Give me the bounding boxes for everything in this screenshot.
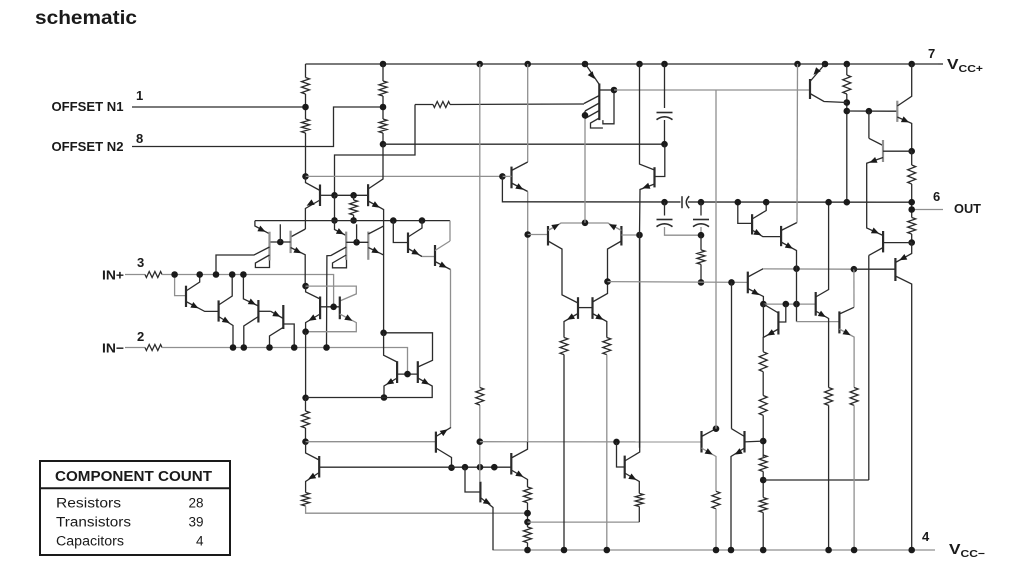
QP0 emitter arrow — [814, 67, 821, 75]
rail junction — [844, 61, 851, 68]
transistor QG bar — [747, 272, 749, 294]
wire R3 top — [382, 64, 384, 81]
QB emitter arrow — [222, 317, 230, 324]
resistor R20 — [759, 352, 767, 372]
transistor QMa bar — [407, 233, 409, 254]
QIa emitter — [752, 230, 781, 237]
svg-text:8: 8 — [136, 131, 143, 146]
node x527 b — [524, 519, 531, 526]
QMa collector — [408, 221, 422, 237]
QH2 emitter arrow — [735, 448, 743, 454]
offset n2 pin wire — [132, 107, 383, 147]
resistor R17 — [524, 487, 532, 503]
node y467 b — [462, 464, 469, 471]
R9 bottom — [911, 234, 913, 243]
node x763 b — [760, 477, 767, 484]
capA top wire — [664, 202, 666, 215]
resistor R11 — [302, 493, 310, 507]
QMC finger tie — [584, 111, 586, 119]
rail junction — [661, 61, 668, 68]
QE bias stub — [356, 224, 358, 242]
QN0 emitter arrow — [308, 473, 316, 479]
QMa base wire — [393, 221, 408, 243]
in+ wire — [162, 275, 334, 307]
VCC+ top rail — [306, 63, 939, 65]
QB collector — [219, 275, 233, 306]
node y282 left — [604, 278, 611, 285]
out pin wire — [912, 209, 943, 211]
QN3 emitter arrow — [628, 474, 636, 480]
quad base rail — [397, 373, 418, 375]
transistor QT bar — [510, 167, 512, 189]
resistor R15 — [476, 388, 484, 406]
QV collector — [816, 202, 829, 297]
QH1 emitter — [702, 448, 717, 491]
R13 down — [563, 355, 565, 550]
node in+ d — [240, 271, 247, 278]
resistor R6 — [350, 200, 358, 215]
node in- b — [241, 344, 248, 351]
QO0 collector — [869, 248, 883, 256]
svg-text:1: 1 — [136, 88, 143, 103]
QN0 base line — [319, 466, 511, 468]
transistor QH2 bar — [743, 431, 745, 453]
node y176 right — [499, 173, 506, 180]
resistor R5 — [433, 102, 450, 108]
QIb emitter — [781, 242, 796, 322]
R7 top stub — [846, 64, 848, 75]
QMb collector wrap — [449, 221, 451, 241]
transistor Q2 bar — [367, 184, 369, 206]
svg-text:39: 39 — [188, 515, 203, 530]
wire to R5 — [415, 104, 433, 106]
transistor QEa bar — [345, 232, 347, 260]
svg-text:6: 6 — [933, 189, 940, 204]
svg-text:schematic: schematic — [35, 8, 137, 29]
QF2 base rail — [270, 241, 291, 243]
QA emitter arrow — [190, 302, 198, 308]
node cap c1 bottom — [661, 141, 668, 148]
QW collector wire — [763, 304, 778, 313]
x868 down — [868, 111, 870, 138]
x480 top — [479, 64, 481, 388]
line y282 — [608, 281, 748, 284]
resistor R1 — [302, 78, 310, 95]
QD emitter arrow — [272, 311, 280, 317]
node y442 b — [613, 439, 620, 446]
rail junction — [794, 61, 801, 68]
QX2 collector — [593, 282, 608, 302]
transistor QF bar — [653, 167, 655, 187]
QF2 emitter — [291, 248, 306, 287]
node x912 b — [908, 239, 915, 246]
QH1 collector — [702, 429, 717, 437]
resistor R25 — [712, 491, 720, 509]
node capB bottom — [698, 232, 705, 239]
transistor QN2 bar — [510, 453, 512, 475]
resistor R22 — [759, 455, 767, 472]
svg-text:4: 4 — [196, 534, 204, 549]
transistor QO1 bar — [894, 258, 896, 281]
svg-text:4: 4 — [922, 529, 930, 544]
resistor R23 — [825, 388, 833, 406]
transistor QC bar — [257, 300, 259, 323]
QF2 collector wire — [291, 229, 306, 237]
transistor QEb bar — [367, 232, 369, 260]
svg-text:OFFSET N1: OFFSET N1 — [52, 99, 124, 114]
resistor R10 — [302, 411, 310, 428]
line y304 — [763, 303, 815, 305]
QE finger 2 — [333, 255, 347, 268]
QN1 collector — [436, 448, 452, 468]
R6 stub bottom — [353, 215, 355, 220]
QQa emitter — [384, 378, 397, 398]
QEb emitter arrow — [371, 247, 379, 253]
resistor R21 — [759, 396, 767, 416]
QF collector wire — [640, 64, 655, 170]
node offset n2 — [380, 104, 387, 111]
Q2 emitter arrow — [372, 201, 380, 208]
VCC- bottom rail — [493, 549, 936, 551]
QL emitter arrow — [308, 314, 316, 321]
bias line y90 — [614, 89, 810, 91]
rail junction — [582, 61, 589, 68]
node x527 diff base — [524, 231, 531, 238]
R17 bottom — [527, 503, 529, 527]
node R4 bottom — [380, 141, 387, 148]
QY collector up — [853, 269, 855, 307]
wire R1-R2 — [305, 94, 307, 119]
wire R4 down — [382, 133, 384, 144]
x527 long wire — [527, 192, 529, 442]
rail dot 731 — [728, 547, 735, 554]
base line y442 left — [306, 441, 436, 443]
svg-text:7: 7 — [928, 46, 935, 61]
R10 top stub — [305, 398, 307, 411]
QMC finger 3 — [585, 111, 599, 119]
QO1 emitter arrow — [899, 254, 907, 260]
node y304 b — [783, 301, 790, 308]
QIb collector — [781, 223, 797, 231]
x797 upper — [796, 64, 799, 223]
QE finger 1 — [327, 247, 347, 348]
wire R2 down — [305, 133, 307, 176]
resistor R26 — [759, 498, 767, 513]
QC emitter feed — [243, 275, 258, 307]
QR emitter arrow — [344, 314, 352, 321]
line y442 right — [480, 441, 702, 443]
QIa collector — [752, 202, 766, 219]
node y268 a — [793, 265, 800, 272]
y202 start — [502, 176, 912, 202]
QG collector — [748, 269, 763, 277]
capacitor C2 — [657, 219, 673, 221]
QY collector diag — [839, 307, 854, 314]
QH2 collector — [732, 429, 745, 437]
svg-text:2: 2 — [137, 329, 144, 344]
QLQR top loop — [306, 286, 321, 299]
QMb collector — [435, 241, 450, 251]
node y220 c — [419, 217, 426, 224]
transistor QV bar — [815, 292, 817, 316]
svg-text:Capacitors: Capacitors — [56, 534, 124, 549]
rail junction — [822, 61, 829, 68]
node y304 c — [793, 301, 800, 308]
QD1 collector — [548, 241, 578, 303]
rail junction — [524, 61, 531, 68]
QC collector — [244, 317, 259, 348]
Q1 base wire — [320, 194, 335, 196]
line y268 — [763, 268, 854, 270]
resistor R14 — [603, 338, 611, 355]
node x763 a — [760, 438, 767, 445]
transistor QN0 bar — [318, 456, 320, 478]
node out top — [908, 199, 915, 206]
QT emitter — [512, 183, 528, 192]
QEb collector wire — [368, 226, 383, 234]
R12 bottom stub — [700, 264, 702, 282]
QE emitter feed — [335, 220, 347, 235]
transistor QF2 bar — [290, 231, 292, 253]
rail dot 763 — [760, 547, 767, 554]
QX base rail — [578, 307, 593, 309]
QP2 collector wire — [869, 138, 883, 145]
node y397 — [381, 394, 388, 401]
QLQR top loop right — [306, 286, 357, 301]
QMa emitter to QMb — [422, 256, 435, 258]
transistor QB bar — [218, 300, 220, 321]
node y304 a — [760, 301, 767, 308]
transistor QIa bar — [751, 214, 753, 234]
rail dot 564 — [561, 547, 568, 554]
transistor QN3 bar — [624, 456, 626, 479]
transistor QH1 bar — [700, 431, 702, 453]
R12 top stub — [700, 235, 702, 250]
capB bottom wire — [700, 227, 702, 235]
R6 stub top — [353, 195, 355, 200]
transistor QW bar — [777, 311, 779, 334]
QV emitter — [816, 311, 829, 388]
QO1 collector — [895, 276, 911, 550]
node QF2 base — [277, 239, 284, 246]
QD base wire — [283, 324, 294, 348]
resistor R2 — [302, 119, 310, 133]
transistor QN1 bar — [435, 432, 437, 453]
R18 bottom — [527, 543, 529, 550]
rail dot 606 — [604, 547, 611, 554]
node y282 r12 — [698, 279, 705, 286]
QY emitter — [839, 329, 854, 388]
R24 down — [853, 405, 855, 550]
transistor QP2 bar — [882, 140, 884, 162]
Q2 collector — [368, 144, 383, 189]
QT collector diag — [512, 162, 528, 171]
resistor R7 — [843, 75, 851, 94]
Q6 emitter arrow — [257, 226, 265, 232]
transistor QMC bar — [598, 84, 600, 121]
QN3 emitter — [625, 473, 640, 493]
QR emitter — [306, 314, 357, 332]
node QE base — [353, 239, 360, 246]
transistor Q6 bar — [268, 232, 270, 261]
R11 bottom wire y513 — [306, 506, 528, 513]
QN1 emitter arrow — [440, 429, 448, 436]
QQa emitter arrow — [386, 378, 394, 385]
QE emitter arrow — [336, 228, 344, 234]
node y513 — [524, 510, 531, 517]
QP3 collector — [897, 64, 911, 106]
component count box — [40, 461, 230, 555]
svg-text:COMPONENT COUNT: COMPONENT COUNT — [55, 469, 212, 485]
node x716 col — [713, 425, 720, 432]
node x846 y202 — [844, 199, 851, 206]
Qm emitter arrow — [483, 498, 491, 504]
resistor on IN- pin — [145, 345, 162, 351]
svg-text:IN−: IN− — [102, 341, 124, 356]
R7 bottom — [846, 94, 848, 202]
QP3 emitter arrow — [901, 116, 909, 122]
rail dot 527 — [524, 547, 531, 554]
resistor R4 — [379, 119, 387, 133]
QD2 emitter — [585, 223, 621, 231]
QB emitter — [219, 317, 233, 348]
R22 mid — [762, 472, 764, 498]
QH1 emitter arrow — [705, 448, 713, 454]
node current set — [302, 395, 309, 402]
transistor QO0 bar — [882, 231, 884, 252]
QMC finger 4 — [591, 118, 603, 128]
transistor QMb bar — [434, 245, 436, 266]
svg-text:VCC+: VCC+ — [947, 56, 983, 75]
node R10 bottom — [302, 438, 309, 445]
QO1 emitter — [895, 243, 911, 263]
QQb emitter arrow — [421, 378, 429, 385]
QN3 collector — [625, 235, 640, 461]
R10 bottom stub — [305, 428, 307, 442]
R20-R21 — [762, 372, 764, 396]
QG emitter arrow — [751, 289, 759, 296]
svg-text:OFFSET N2: OFFSET N2 — [52, 139, 124, 154]
QMC emitter arrow — [588, 71, 595, 79]
wire base rail down — [334, 195, 336, 220]
line y480 — [763, 479, 869, 481]
node x846 b — [844, 108, 851, 115]
x731 down — [731, 282, 733, 428]
quad feed left — [384, 333, 398, 362]
rail junction — [636, 61, 643, 68]
QMa emitter arrow — [411, 249, 419, 255]
line y522 — [528, 521, 640, 523]
QG emitter — [748, 289, 764, 305]
QT emitter arrow — [515, 183, 523, 190]
x763 from dot — [762, 304, 764, 337]
Q2 emitter — [368, 201, 384, 333]
rail dot 912 — [908, 547, 915, 554]
bias line y176 — [306, 175, 503, 177]
node out — [908, 206, 915, 213]
resistor R18 — [524, 527, 532, 543]
node in- branch — [323, 344, 330, 351]
resistor R24 — [850, 388, 858, 406]
Q6 finger 2 — [255, 255, 269, 268]
svg-text:Transistors: Transistors — [56, 515, 131, 530]
node base rail R6 — [350, 192, 357, 199]
QF base wire — [655, 144, 665, 176]
node Q1 base — [331, 192, 338, 199]
node y268 b — [851, 266, 858, 273]
x527 collector seg — [527, 64, 529, 162]
quad feed — [384, 333, 433, 367]
QD1 emitter arrow — [551, 224, 559, 231]
node diff top — [582, 220, 589, 227]
QEb emitter — [368, 248, 383, 255]
vcc+ stub — [938, 63, 943, 65]
x868 vertical — [868, 255, 870, 480]
node y202 cap — [661, 199, 668, 206]
QP2 base wire — [883, 150, 912, 152]
transistor QD2 bar — [620, 226, 622, 246]
QF2 emitter arrow — [293, 247, 301, 253]
line y111 — [847, 110, 898, 112]
rail dot 854 — [851, 547, 858, 554]
QT base wire — [502, 175, 511, 177]
svg-text:3: 3 — [137, 255, 144, 270]
QW emitter arrow — [767, 329, 775, 335]
QA emitter — [186, 302, 219, 312]
QV emitter arrow — [818, 311, 826, 318]
QN2 emitter — [511, 470, 527, 487]
QX2 emitter arrow — [595, 313, 603, 320]
wire L feed — [335, 105, 416, 196]
QIa base wire — [738, 202, 752, 223]
R14 down — [606, 355, 608, 550]
transistor QX2 bar — [591, 297, 593, 319]
QMb emitter — [435, 262, 451, 270]
QMC finger 1 — [584, 96, 599, 104]
node x527 a — [524, 510, 531, 517]
capC top wire — [664, 64, 666, 108]
QN0 emitter — [306, 473, 320, 493]
diff top up — [584, 115, 586, 223]
QMC base stub — [599, 89, 614, 91]
QMb emitter arrow — [439, 262, 447, 268]
node y202 capb — [698, 199, 705, 206]
QP3 emitter — [897, 117, 911, 151]
capC bottom wire — [664, 120, 666, 144]
Q6 finger 1 — [216, 247, 270, 275]
QD emitter feed — [271, 311, 284, 318]
in+ pin wire segment — [125, 274, 145, 276]
node y467 d — [491, 464, 498, 471]
node y282 right — [728, 279, 735, 286]
resistor R9 — [908, 218, 916, 235]
QF emitter — [640, 184, 655, 235]
transistor QY bar — [838, 311, 840, 333]
transistor QP0 bar — [809, 79, 811, 99]
node in+ b — [196, 271, 203, 278]
resistor R12 — [697, 250, 705, 265]
capacitor C4 — [693, 219, 709, 221]
transistor QR bar — [339, 297, 341, 320]
QA base wire — [175, 275, 186, 296]
Q6 emitter — [255, 221, 270, 234]
QD2 base — [621, 234, 639, 236]
node QLQR base — [330, 304, 337, 311]
QD2 emitter arrow — [609, 224, 617, 230]
node y220 a — [331, 217, 338, 224]
Qm base wire — [465, 467, 480, 492]
in- wire — [162, 348, 408, 375]
